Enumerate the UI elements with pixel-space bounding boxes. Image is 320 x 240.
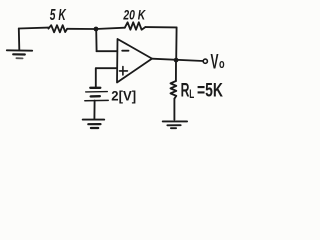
svg-text:o: o bbox=[219, 57, 225, 71]
terminal Vo (open circle) bbox=[203, 59, 207, 63]
wire: R1 to node A bbox=[67, 28, 94, 30]
ground (battery) bbox=[83, 120, 105, 128]
label Vo bbox=[211, 49, 225, 73]
wire: inverting input lead bbox=[97, 50, 118, 52]
output node junction dot bbox=[174, 58, 179, 63]
resistor R2 20K bbox=[125, 22, 146, 29]
wire: op-amp output bbox=[152, 59, 203, 61]
battery 2V bbox=[85, 88, 108, 101]
svg-text:L: L bbox=[189, 87, 194, 101]
wire: output node down to RL bbox=[175, 60, 177, 81]
ground (load) bbox=[163, 121, 187, 128]
op-amp U1 bbox=[117, 39, 152, 83]
label RL = 5K bbox=[181, 79, 224, 101]
resistor R1 5K bbox=[49, 25, 68, 32]
wire: node A to resistor R2 bbox=[96, 28, 125, 29]
wire: battery bottom stem bbox=[93, 101, 95, 120]
resistor RL bbox=[171, 81, 177, 99]
wire: R2 to feedback corner bbox=[145, 26, 176, 28]
svg-text:5 K: 5 K bbox=[50, 7, 67, 24]
svg-text:20 K: 20 K bbox=[123, 6, 147, 22]
wire: feedback down to output node bbox=[175, 27, 177, 60]
wire: node A down to inverting input bbox=[95, 29, 97, 51]
svg-text:R: R bbox=[181, 80, 190, 102]
wire: non-inverting input lead bbox=[96, 67, 117, 69]
svg-text:2[V]: 2[V] bbox=[111, 88, 136, 103]
svg-text:=5K: =5K bbox=[197, 79, 223, 101]
wire: RL to ground bbox=[173, 99, 175, 120]
node A junction dot bbox=[94, 27, 99, 32]
svg-text:V: V bbox=[211, 49, 219, 73]
ground (input side, top-left) bbox=[7, 29, 32, 59]
wire: battery top stem bbox=[95, 68, 97, 86]
wire: ground to resistor R1 bbox=[19, 27, 49, 30]
